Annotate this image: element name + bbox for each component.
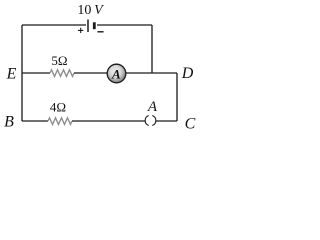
battery short plate (-) (93, 22, 96, 29)
wire left vertical (top-left corner down through E to B) (21, 25, 23, 121)
svg-text:E: E (6, 66, 17, 83)
svg-text:D: D (181, 65, 194, 82)
battery V1 10V (77, 3, 104, 33)
battery long plate (+) (87, 20, 89, 33)
svg-text:10 V: 10 V (77, 3, 104, 18)
ammeter A2 small circle (152, 116, 156, 126)
wire ammeter A2 to C corner (156, 120, 177, 122)
wire resistor R2 to ammeter A2 (72, 120, 145, 122)
wire top-right segment (battery - to top-right corner) (97, 24, 152, 26)
svg-text:C: C (185, 116, 196, 132)
svg-text:A: A (147, 99, 158, 115)
resistor R1 zigzag (50, 70, 74, 77)
svg-text:A: A (111, 66, 121, 81)
battery + sign (78, 28, 83, 33)
ammeter A1 (circle with A) (107, 64, 126, 83)
wire resistor R1 to ammeter A1 (74, 72, 107, 74)
wire right vertical D to C (176, 73, 178, 121)
svg-text:5Ω: 5Ω (51, 53, 67, 68)
resistor R2 zigzag (48, 118, 72, 125)
svg-text:4Ω: 4Ω (50, 100, 66, 115)
svg-text:B: B (4, 114, 14, 131)
wire top-left segment (from top-left corner to battery +) (22, 24, 86, 26)
wire battery branch right vertical (down to junction on ED line) (151, 25, 153, 73)
wire E to resistor R1 (22, 72, 50, 74)
battery - sign (97, 31, 103, 33)
wire ammeter A1 to D corner (126, 72, 177, 74)
wire B to resistor R2 (22, 120, 48, 122)
